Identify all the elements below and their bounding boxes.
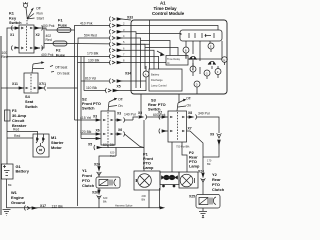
svg-text:Ground: Ground bbox=[11, 200, 26, 205]
wire label 402 Red bbox=[46, 34, 52, 42]
test point C bbox=[190, 66, 196, 72]
svg-text:A: A bbox=[145, 72, 147, 76]
circuit breaker F3 bbox=[5, 110, 11, 121]
fuse F2 label bbox=[56, 48, 66, 58]
svg-text:G: G bbox=[206, 71, 208, 75]
wire to starter pin bbox=[7, 132, 38, 135]
svg-text:X6: X6 bbox=[96, 129, 100, 133]
svg-text:Lamp: Lamp bbox=[189, 164, 200, 169]
front PTO switch S2 label bbox=[82, 97, 101, 111]
svg-text:170 Blk: 170 Blk bbox=[87, 52, 99, 56]
circuit breaker F3 label bbox=[12, 108, 27, 128]
svg-text:Lamp Control: Lamp Control bbox=[151, 84, 167, 88]
svg-text:H: H bbox=[223, 58, 225, 62]
svg-text:Blk: Blk bbox=[207, 162, 211, 166]
svg-text:X5: X5 bbox=[138, 111, 142, 115]
seat switch off/on labels bbox=[55, 66, 69, 76]
svg-text:Switch: Switch bbox=[82, 106, 95, 111]
svg-text:Clutch: Clutch bbox=[212, 187, 225, 192]
S1 right pin X3 out bbox=[115, 118, 133, 123]
wire label Red bbox=[13, 128, 20, 139]
svg-text:Lamp: Lamp bbox=[143, 165, 154, 170]
wire label 620 Pnk bbox=[110, 151, 115, 159]
module internal bus staircase bbox=[131, 20, 218, 88]
svg-text:X26: X26 bbox=[92, 191, 98, 195]
svg-text:750 Pur/Blk: 750 Pur/Blk bbox=[176, 145, 190, 149]
fuse F1 bbox=[57, 28, 71, 33]
battery G1 label bbox=[16, 164, 30, 174]
svg-text:Discharge: Discharge bbox=[151, 78, 163, 82]
module internal horizontals bbox=[136, 34, 222, 60]
svg-text:400 Pnk: 400 Pnk bbox=[41, 53, 54, 57]
svg-text:X1: X1 bbox=[10, 33, 14, 37]
svg-text:X33: X33 bbox=[127, 16, 133, 20]
module output stage inner box bbox=[180, 30, 222, 41]
svg-text:Switch: Switch bbox=[9, 20, 22, 25]
connector X9 bbox=[203, 134, 222, 158]
svg-text:X2: X2 bbox=[36, 33, 40, 37]
svg-text:Red: Red bbox=[2, 55, 8, 59]
front PTO lamp P1 label bbox=[143, 152, 154, 171]
svg-text:Harness Splice: Harness Splice bbox=[115, 204, 133, 208]
wire 349 Pur S2 to rear clutch bbox=[197, 117, 220, 133]
svg-text:7: 7 bbox=[123, 52, 125, 56]
connector X33 pin column bbox=[109, 17, 131, 66]
test point H bbox=[222, 57, 228, 63]
svg-text:X8: X8 bbox=[188, 111, 192, 115]
svg-text:Red: Red bbox=[13, 128, 19, 132]
svg-text:200: 200 bbox=[142, 194, 147, 198]
rear PTO clutch Y2 label bbox=[212, 172, 225, 192]
svg-text:X17: X17 bbox=[40, 204, 46, 208]
wire to starter body bbox=[7, 137, 33, 139]
front PTO clutch Y1 label bbox=[82, 168, 95, 188]
connector X1/X2 key switch block bbox=[11, 20, 42, 53]
wire seat switch right to harness vertical bbox=[47, 87, 78, 89]
wire label 170 Blk vertical bbox=[207, 159, 212, 167]
module A1 outline bbox=[131, 20, 227, 94]
svg-text:Blk: Blk bbox=[8, 183, 12, 187]
svg-text:X9: X9 bbox=[210, 133, 214, 137]
svg-text:4: 4 bbox=[123, 34, 125, 38]
S1 left pin X3 bbox=[75, 119, 101, 121]
lamp driver pictogram box bbox=[160, 172, 179, 187]
wire seat switch left to page edge bbox=[2, 87, 19, 89]
transistor Q2 bbox=[208, 62, 216, 65]
test point E bbox=[208, 43, 214, 49]
transistor Q1 bbox=[189, 57, 197, 60]
svg-text:504 Red: 504 Red bbox=[84, 34, 97, 38]
wire 100 Red from key switch to battery feed bbox=[7, 28, 14, 110]
svg-text:X5: X5 bbox=[88, 143, 92, 147]
key switch K1 label bbox=[9, 11, 22, 26]
seat switch arm bbox=[32, 62, 54, 73]
svg-text:Clutch: Clutch bbox=[82, 183, 95, 188]
front PTO clutch Y1 solenoid bbox=[96, 177, 120, 188]
svg-text:X24: X24 bbox=[198, 170, 204, 174]
key switch position labels bbox=[36, 7, 44, 21]
svg-text:X11: X11 bbox=[12, 82, 18, 86]
svg-text:Off: Off bbox=[36, 7, 41, 11]
test point D bbox=[194, 81, 200, 87]
svg-text:Control Module: Control Module bbox=[152, 11, 185, 16]
wire 400 Pnk key switch to fuse F1 bbox=[40, 28, 57, 30]
rear PTO clutch Y2 solenoid bbox=[196, 195, 220, 209]
wire 410 Pnk fuse F1 to module pin 2 bbox=[71, 26, 110, 31]
rear PTO lamp P2 label bbox=[189, 150, 200, 169]
svg-text:Pnk: Pnk bbox=[110, 154, 115, 158]
test point wires bbox=[131, 49, 225, 94]
svg-text:B: B bbox=[185, 48, 187, 52]
svg-text:F: F bbox=[217, 70, 219, 74]
wire S2 bottom to rear lamp bbox=[182, 142, 187, 172]
ground symbol Y2 bbox=[199, 208, 207, 218]
svg-text:600 Pnk: 600 Pnk bbox=[153, 113, 166, 117]
svg-text:X3: X3 bbox=[117, 112, 121, 116]
svg-text:140 Pur: 140 Pur bbox=[124, 113, 137, 117]
output stage drops bbox=[186, 41, 210, 74]
test point A bbox=[143, 71, 149, 77]
svg-text:Time Delay: Time Delay bbox=[154, 6, 178, 11]
svg-text:X7: X7 bbox=[188, 127, 192, 131]
svg-text:Blk: Blk bbox=[103, 200, 107, 204]
svg-text:Off: Off bbox=[186, 97, 191, 101]
wire battery feed down bbox=[6, 121, 8, 164]
connector X17 bbox=[24, 206, 36, 211]
module bottom pin to X5 bbox=[140, 94, 142, 117]
rear PTO switch position labels bbox=[186, 97, 191, 108]
wire label 620 Blk bbox=[103, 196, 108, 204]
S1 left pin lower stub bbox=[81, 137, 100, 139]
front PTO switch S1 block bbox=[101, 111, 115, 145]
connector X36 pin bbox=[105, 88, 131, 93]
svg-text:X6: X6 bbox=[118, 128, 122, 132]
harness verticals bbox=[75, 30, 85, 206]
connector X35 pin bbox=[109, 79, 131, 84]
svg-text:Start: Start bbox=[37, 17, 44, 21]
svg-text:120 Blk: 120 Blk bbox=[80, 130, 92, 134]
battery discharge lamp control box bbox=[149, 69, 182, 91]
ground symbol W1 bbox=[3, 210, 11, 216]
S2 left pin X7 bbox=[159, 115, 168, 120]
front PTO switch arm bbox=[108, 98, 117, 111]
connector X5 mid pin bbox=[133, 115, 162, 148]
wire 110 Blk to module lower pin bbox=[84, 90, 106, 92]
fuse F2 bbox=[53, 41, 67, 46]
rear PTO switch S3 label bbox=[148, 98, 166, 112]
svg-text:Time Delay: Time Delay bbox=[167, 57, 181, 61]
bottom ground bus wire bbox=[7, 207, 164, 209]
svg-text:E: E bbox=[210, 44, 212, 48]
svg-text:IC: IC bbox=[167, 61, 170, 65]
S2 left lower pin bbox=[159, 129, 168, 134]
starting motor M1 bbox=[33, 134, 49, 157]
rear PTO switch arm bbox=[177, 99, 186, 111]
svg-text:Off: Off bbox=[118, 98, 123, 102]
test point G bbox=[204, 70, 210, 76]
test point B2 bbox=[183, 47, 189, 53]
wire 810 Yel to module pin X35 bbox=[81, 80, 109, 82]
svg-text:X20: X20 bbox=[94, 163, 100, 167]
wire S2 bottom to pictogram bbox=[171, 142, 173, 172]
svg-text:Run: Run bbox=[37, 12, 43, 16]
svg-text:Motor: Motor bbox=[51, 145, 62, 150]
svg-text:X25: X25 bbox=[189, 195, 195, 199]
engine ground W1 label bbox=[11, 190, 26, 205]
wire 620 Pnk to front clutch bbox=[99, 156, 116, 166]
S1 bottom pin X5 bbox=[94, 145, 108, 150]
svg-text:X3: X3 bbox=[93, 115, 97, 119]
svg-text:Red: Red bbox=[14, 134, 20, 138]
svg-text:Fuse: Fuse bbox=[58, 23, 68, 28]
svg-text:Blk: Blk bbox=[142, 198, 146, 202]
test point F bbox=[215, 69, 221, 75]
svg-text:500 Blk: 500 Blk bbox=[103, 143, 115, 147]
svg-text:X34: X34 bbox=[125, 72, 131, 76]
svg-text:2: 2 bbox=[123, 22, 125, 26]
svg-text:X5: X5 bbox=[117, 85, 121, 89]
svg-text:On: On bbox=[118, 104, 123, 108]
svg-text:349 Pur: 349 Pur bbox=[198, 112, 211, 116]
svg-text:170: 170 bbox=[207, 159, 212, 163]
starting motor M1 label bbox=[51, 135, 64, 150]
svg-text:Off Seat: Off Seat bbox=[55, 66, 67, 70]
battery G1 bbox=[2, 164, 14, 208]
pin numbers bbox=[123, 22, 125, 63]
svg-text:On Seat: On Seat bbox=[57, 72, 69, 76]
wire label 100 Red bbox=[2, 51, 8, 59]
svg-text:410 Pnk: 410 Pnk bbox=[80, 22, 93, 26]
svg-text:8: 8 bbox=[123, 59, 125, 63]
S2 right pin X8 bbox=[187, 115, 197, 120]
fuse F1 label bbox=[58, 18, 68, 28]
front PTO switch position labels bbox=[118, 98, 123, 109]
rear PTO switch S2 block bbox=[168, 111, 187, 142]
S1 right pin X6 out bbox=[115, 132, 125, 137]
svg-text:415 Yel: 415 Yel bbox=[80, 116, 91, 120]
S2 lower right wire diagonal bbox=[187, 131, 204, 171]
wire 504 Red fuse F2 to module pin 4 bbox=[67, 38, 110, 44]
wire 400 Pnk lower branch to module pin 7 bbox=[7, 55, 110, 57]
svg-text:5: 5 bbox=[123, 40, 125, 44]
wire label 200 Blk bbox=[142, 194, 147, 202]
rear PTO lamp P2 bbox=[179, 172, 198, 188]
svg-text:A1: A1 bbox=[160, 1, 166, 6]
svg-text:C: C bbox=[192, 67, 194, 71]
wire S1 X6 diagonal to lamp feed bbox=[125, 134, 145, 171]
svg-text:Switch: Switch bbox=[25, 104, 38, 109]
page border bbox=[0, 36, 2, 215]
leader arrow to IC bbox=[157, 51, 164, 56]
lamp box drops to ground bus bbox=[149, 188, 160, 208]
seat switch S4 connector block bbox=[18, 73, 46, 93]
connector X20 bbox=[97, 167, 102, 178]
svg-text:400 Pnk: 400 Pnk bbox=[42, 24, 55, 28]
module A1 label bbox=[152, 1, 185, 17]
wire 130 Blk to module pin 8 bbox=[78, 62, 111, 64]
svg-text:Battery: Battery bbox=[16, 169, 30, 174]
connector X26 bbox=[97, 188, 102, 208]
svg-text:810 Yel: 810 Yel bbox=[85, 77, 96, 81]
svg-text:Red: Red bbox=[46, 38, 52, 42]
svg-text:110 Blk: 110 Blk bbox=[86, 86, 97, 90]
svg-text:130 Blk: 130 Blk bbox=[88, 59, 100, 63]
svg-text:X7/1: X7/1 bbox=[39, 82, 46, 86]
svg-text:132 Blk: 132 Blk bbox=[52, 205, 64, 209]
wire module to S2 arm bbox=[178, 94, 180, 103]
wire 500 Blk bbox=[108, 148, 144, 157]
svg-text:620: 620 bbox=[110, 151, 115, 155]
front PTO lamp P1 bbox=[134, 171, 160, 190]
seat switch label bbox=[25, 94, 38, 109]
key switch K1 symbol bbox=[23, 2, 35, 19]
svg-text:On: On bbox=[187, 104, 192, 108]
svg-text:Battery: Battery bbox=[151, 73, 160, 77]
svg-text:6: 6 bbox=[123, 46, 125, 50]
connector X24 bbox=[201, 173, 206, 195]
wire 402 Red key switch to fuse F2 bbox=[41, 28, 53, 48]
S1 left pin X6 bbox=[81, 133, 100, 135]
svg-text:3: 3 bbox=[123, 28, 125, 32]
svg-text:620: 620 bbox=[103, 196, 108, 200]
svg-text:D: D bbox=[196, 82, 198, 86]
time delay IC box bbox=[166, 56, 188, 66]
